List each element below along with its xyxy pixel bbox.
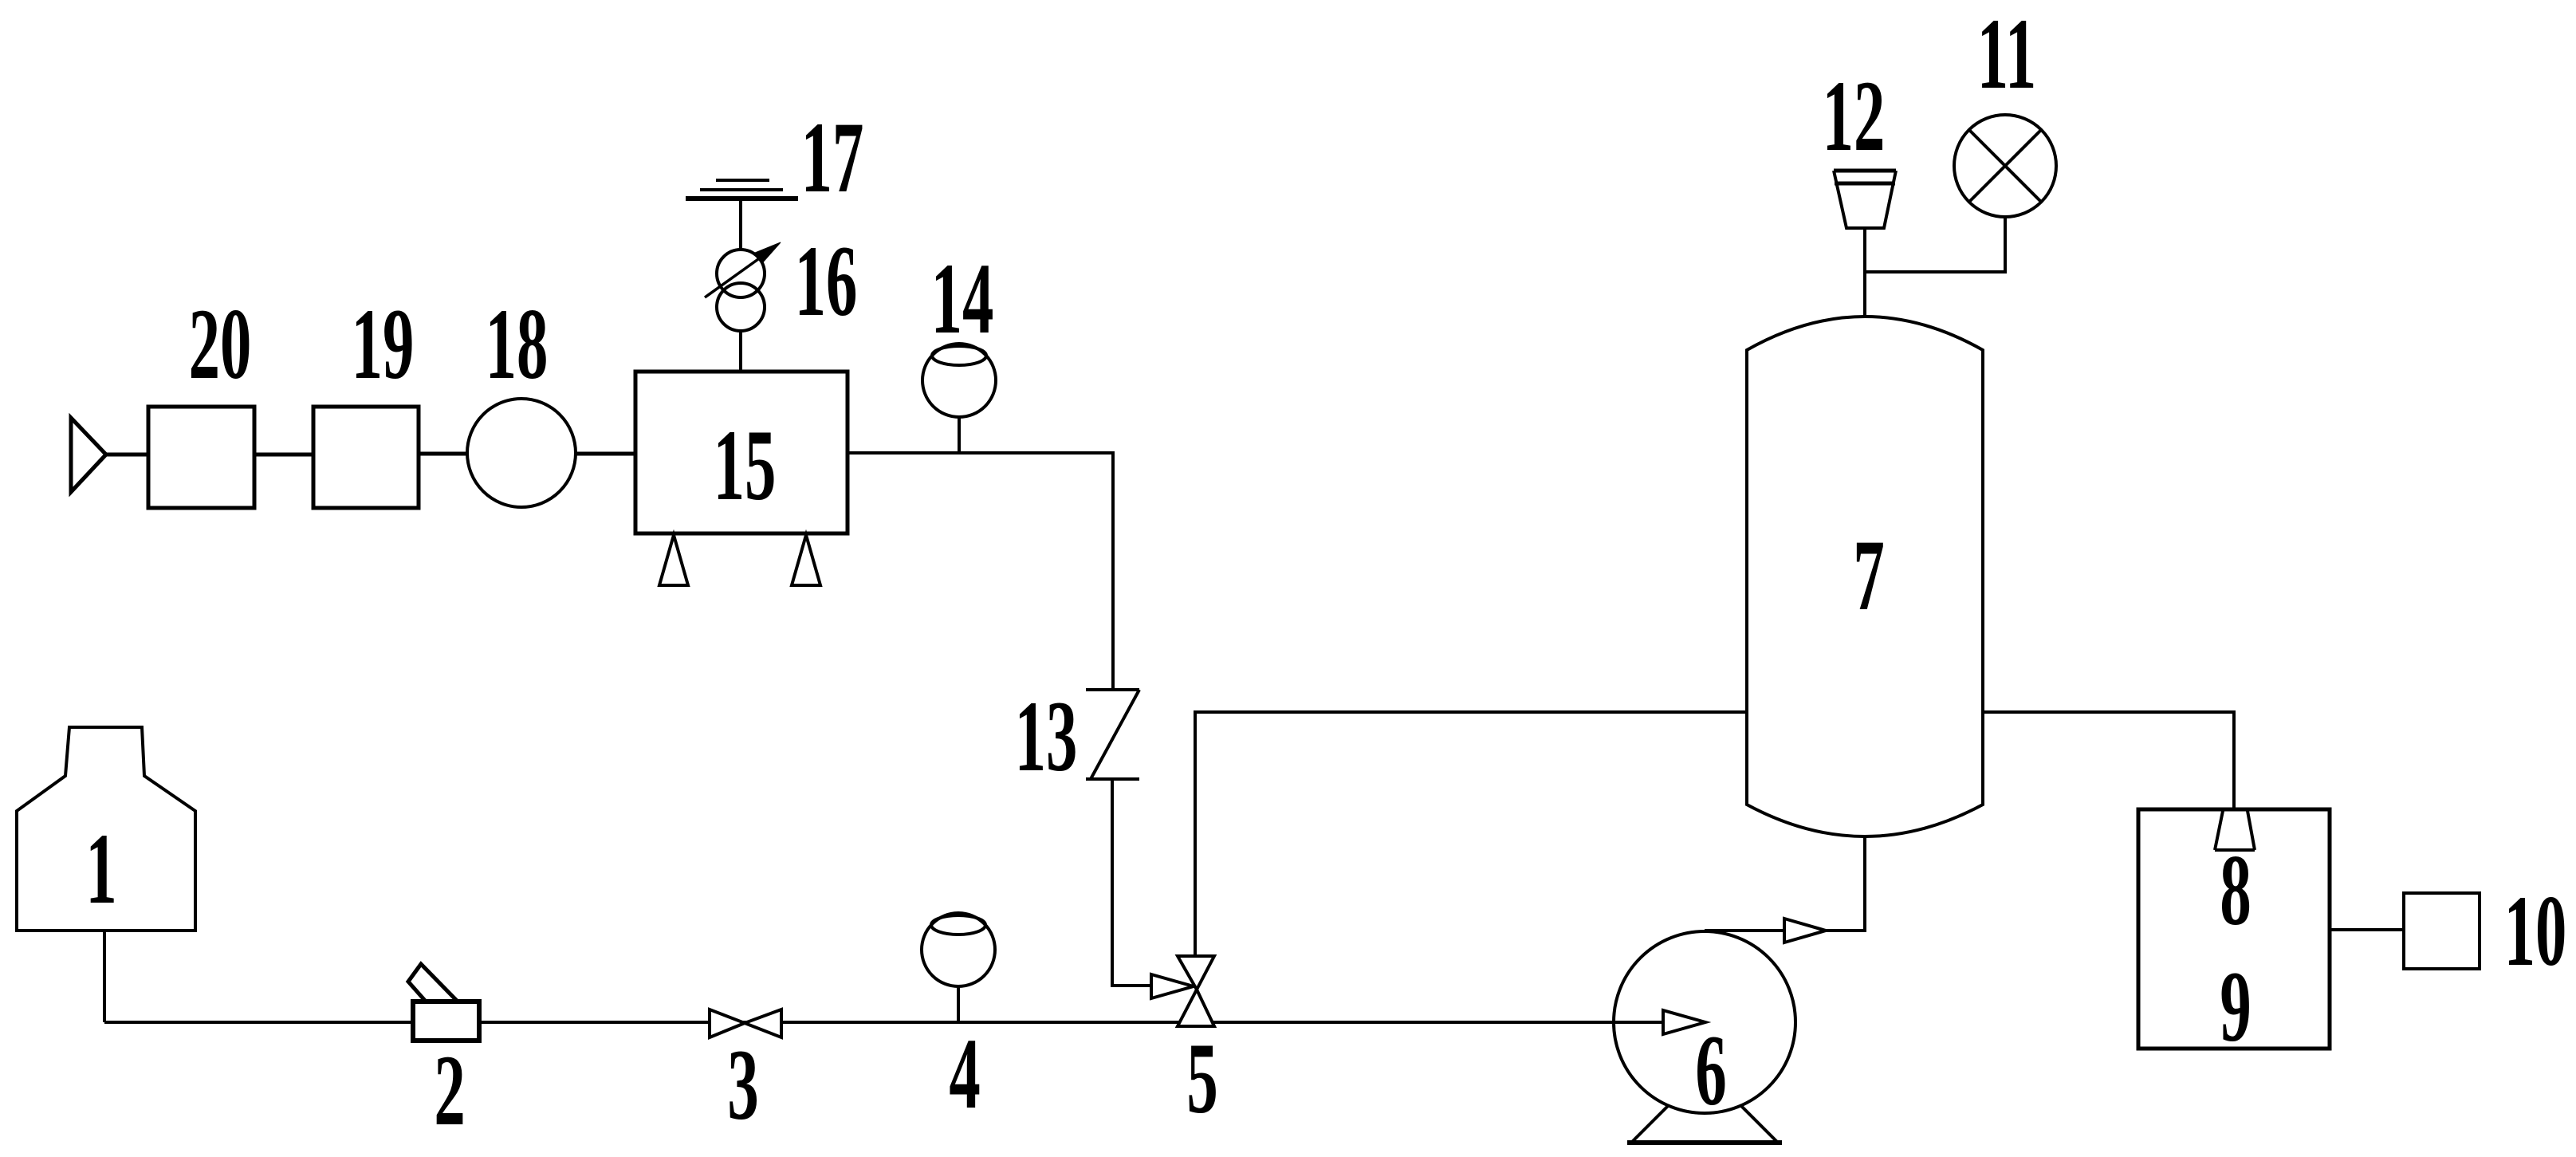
- svg-text:3: 3: [727, 1029, 758, 1141]
- svg-text:14: 14: [931, 242, 994, 355]
- svg-text:6: 6: [1695, 1014, 1726, 1127]
- svg-text:19: 19: [352, 288, 415, 400]
- svg-text:15: 15: [714, 409, 777, 521]
- svg-text:17: 17: [801, 101, 864, 214]
- svg-text:13: 13: [1015, 680, 1078, 793]
- svg-text:9: 9: [2220, 950, 2251, 1063]
- svg-text:1: 1: [85, 813, 116, 925]
- svg-text:2: 2: [434, 1034, 465, 1147]
- svg-text:10: 10: [2504, 875, 2567, 987]
- svg-text:4: 4: [949, 1017, 980, 1130]
- svg-text:8: 8: [2220, 834, 2251, 946]
- svg-text:5: 5: [1186, 1022, 1217, 1135]
- svg-text:16: 16: [795, 225, 858, 337]
- svg-text:18: 18: [486, 288, 549, 400]
- svg-text:7: 7: [1853, 519, 1884, 632]
- svg-text:20: 20: [189, 288, 252, 400]
- svg-text:11: 11: [1977, 0, 2036, 110]
- svg-text:12: 12: [1823, 60, 1886, 172]
